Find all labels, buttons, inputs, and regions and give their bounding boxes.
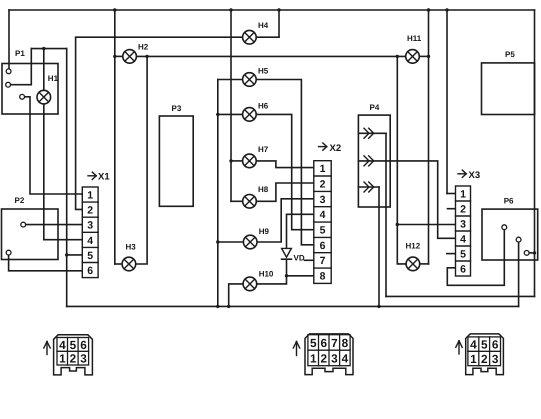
wire P2 contact2 to X1 pin6 [9,255,83,271]
svg-text:4: 4 [342,351,349,365]
svg-text:4: 4 [320,209,326,221]
wire bus drop x115 to H3 [114,10,116,264]
wire P1 contact2 lead [11,49,32,85]
svg-text:H9: H9 [259,227,270,236]
lamp H9 [243,235,257,249]
wire P4 pin3 drop to net B [378,187,380,306]
svg-text:4: 4 [87,235,93,247]
lamp H8 [243,195,257,209]
svg-text:5: 5 [310,336,317,350]
wire bus riser to P4 pin1 [385,133,387,296]
svg-text:3: 3 [492,352,499,366]
wire H3 left lead [115,263,122,265]
wire X2 pin7 stub [305,259,314,261]
svg-text:4: 4 [460,234,466,246]
wire H2 left lead [115,55,123,57]
label X1 with arrow [88,172,96,180]
svg-text:H11: H11 [407,34,422,43]
wire net B top run [31,48,66,50]
wire H1 bottom lead to X1 pin4 [44,104,83,240]
wire drop x397 to H12 left [397,56,406,264]
wire H7 right lead to X2 pin1 [256,161,314,168]
svg-text:1: 1 [470,352,477,366]
svg-text:3: 3 [460,219,466,231]
wire bus drop x428 to H12 [428,10,430,264]
wire H5 left lead [218,79,243,81]
junction dots H2 row [113,55,399,227]
wire VD cathode lead [286,260,288,276]
device box P4 [358,115,390,207]
wire H7 left lead [231,160,243,162]
svg-text:2: 2 [87,205,93,217]
svg-text:P4: P4 [370,103,380,112]
svg-text:8: 8 [342,336,349,350]
X1 pinout view arrow [44,342,50,355]
wire P6 contact3 to bus [529,252,534,254]
switch unit P1 [2,64,58,115]
svg-text:3: 3 [320,194,326,206]
contact P1.3 [20,94,25,99]
wire H8 left lead [231,200,243,202]
contact P6.2 [516,237,521,242]
svg-text:H2: H2 [138,43,149,52]
lamp H11 [406,50,420,64]
svg-text:5: 5 [320,225,326,237]
wire H1 top lead [43,49,45,91]
connector X1 [82,187,98,278]
svg-text:1: 1 [310,351,317,365]
svg-text:H3: H3 [126,243,137,252]
svg-text:4: 4 [59,338,66,352]
wire VD anode to X2 pin4 [287,214,314,248]
label X2 with arrow [319,143,327,151]
wire net B bottom run [67,305,519,307]
wire bus right [534,10,536,296]
wire P1 contact3 to X1 pin1 [25,97,83,194]
wire H6 right lead to X2 pin5 [256,114,314,229]
label X3 with arrow [458,170,466,178]
svg-text:2: 2 [460,204,466,216]
svg-text:2: 2 [321,351,328,365]
wire X3 pin1 lead [447,193,456,195]
wire bus drop x447 to X3 pin1 [446,10,448,194]
svg-text:3: 3 [87,220,93,232]
lamp H1 [37,90,51,104]
svg-text:6: 6 [80,338,87,352]
wire X3 pin3 lead [397,224,455,226]
svg-text:6: 6 [460,264,466,276]
svg-text:5: 5 [460,249,466,261]
lamp H7 [243,154,257,168]
contact P2.1 [21,222,26,227]
svg-text:X3: X3 [469,170,481,181]
lamp H12 [406,257,420,271]
X3 pinout view arrow [456,341,462,354]
svg-text:1: 1 [320,163,326,175]
X2 pinout cell grid [308,335,350,366]
wire H9 right lead to X2 pin3 [257,199,314,242]
X2 pinout view arrow [293,342,299,356]
wire P2 contact1 to X1 pin3 [26,224,83,226]
svg-text:1: 1 [87,190,93,202]
wire X2 pin8 lead [287,275,314,277]
svg-text:P5: P5 [505,50,515,59]
X3 pinout connector body [466,334,504,375]
wire H12 right lead [420,263,429,265]
plug contact P4.2 [364,156,369,166]
svg-text:H4: H4 [258,21,269,30]
svg-text:3: 3 [331,351,338,365]
lamp H2 [123,50,137,64]
svg-text:2: 2 [320,179,326,191]
wire net B drop x218 [217,80,219,307]
svg-text:5: 5 [87,250,93,262]
switch unit P6 [482,209,538,260]
wire H4 line to X1 pin2 [76,37,243,209]
X2 pinout connector body [305,334,353,375]
lamp H4 [243,30,257,44]
lamp H10 [243,277,257,291]
device box P3 [159,116,193,206]
wire P4 pin1 lead [359,132,387,134]
wire drop x147 to H3 right [136,56,148,264]
svg-text:2: 2 [481,352,488,366]
wire bus bottom right run [386,295,535,297]
diode VD [282,248,292,259]
junction dots net B [42,47,381,308]
wire H4 right lead riser [278,10,280,37]
wire H9 left lead [218,241,244,243]
wire bus left [8,10,10,69]
svg-text:X1: X1 [98,172,110,183]
svg-text:6: 6 [492,338,499,352]
svg-text:7: 7 [320,255,326,267]
wire H5 right lead to X2 pin6 [256,80,314,245]
svg-text:X2: X2 [330,143,342,154]
X1 pinout connector body [54,335,93,375]
wire H11 right lead [419,55,428,57]
svg-text:P1: P1 [15,49,25,58]
svg-text:6: 6 [87,265,93,277]
svg-text:P6: P6 [504,197,514,206]
svg-text:H5: H5 [258,67,269,76]
svg-text:H1: H1 [48,74,59,83]
svg-text:6: 6 [321,336,328,350]
junction dots on bus [113,8,536,254]
wire H8 right lead to X2 pin2 [256,183,314,201]
wire P4 pin3 lead [359,186,380,188]
X3 pinout cell grid [468,337,501,366]
plug contact P4.1 [364,128,369,138]
connector X3 [456,186,471,276]
svg-text:H8: H8 [258,185,269,194]
svg-text:2: 2 [70,352,77,366]
lamp H3 [122,257,136,271]
contact P1.2 [6,82,11,87]
lamp H5 [243,73,257,87]
switch unit P2 [2,209,59,260]
contact P6.1 [502,225,507,230]
svg-text:H12: H12 [406,242,421,251]
wire H2 to H11 run [136,55,406,57]
svg-text:7: 7 [331,336,338,350]
lamp H6 [243,108,257,122]
wire P4 pin2 to X3 pin4 [359,161,456,238]
svg-text:3: 3 [80,352,87,366]
wire X3 pin6 to P6 contact1 [447,230,504,285]
svg-text:1: 1 [59,352,66,366]
connector X2 [314,161,331,284]
wire H6 left lead [218,113,243,115]
contact P6.3 [524,251,529,256]
svg-text:H7: H7 [258,145,269,154]
wire X1 pin5 lead [67,254,83,256]
svg-text:VD: VD [294,254,305,263]
svg-text:8: 8 [320,271,326,283]
contact P1.1 [6,69,11,74]
wire net B drop x67 [66,49,68,307]
svg-text:1: 1 [460,189,466,201]
svg-text:P2: P2 [15,196,25,205]
wire H4 right lead [256,36,279,38]
svg-text:P3: P3 [172,104,182,113]
svg-text:5: 5 [481,338,488,352]
device box P5 [482,63,535,115]
wire H10 left lead [229,284,243,307]
wire X3 pin5 stub [447,253,456,255]
svg-text:H6: H6 [258,102,269,111]
junction dot VD cathode [285,274,288,277]
contact P2.2 [6,250,11,255]
svg-text:6: 6 [320,240,326,252]
wire bus top [9,9,535,11]
wire net B riser to P6 contact2 [518,242,520,306]
wire X3 pin2 stub [448,208,456,210]
wire bus drop x231 [230,10,232,201]
plug contact P4.3 [364,182,369,192]
wire H10 right lead [257,276,287,284]
svg-text:4: 4 [470,338,477,352]
svg-text:5: 5 [70,338,77,352]
X1 pinout cell grid [57,338,89,366]
svg-text:H10: H10 [259,270,274,279]
